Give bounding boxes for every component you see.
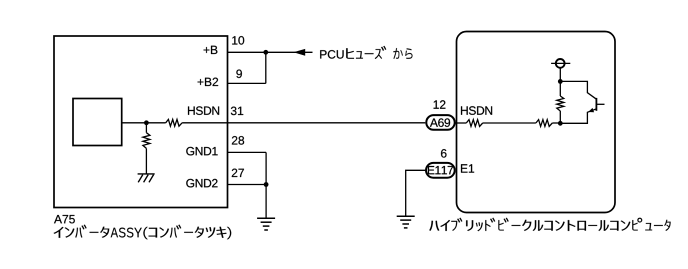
wire: +B2 riser to node J2 bbox=[265, 52, 267, 83]
connector A69 (oval) bbox=[426, 115, 454, 130]
transistor Q1 base bar bbox=[595, 98, 597, 111]
pin label GND1 bbox=[186, 147, 217, 156]
chassis ground (internal) bbox=[138, 174, 155, 182]
label: PCU fuse kara bbox=[320, 50, 343, 59]
resistor R2 (pull-down, internal) bbox=[143, 133, 150, 149]
pin label +B2 bbox=[198, 78, 219, 86]
wire: A69 into ECU bbox=[455, 122, 466, 124]
wire: down to ground G2 bbox=[265, 185, 267, 219]
wire: R3 to R4 bbox=[483, 122, 536, 124]
wire: node J4 to transistor Q1 collector bbox=[560, 81, 596, 99]
wire: R2 to chassis ground bbox=[145, 148, 147, 174]
pin number 12 bbox=[434, 100, 446, 108]
designator A75 bbox=[54, 215, 75, 223]
label: inverter ASSY (converter tsuki) bbox=[54, 225, 232, 240]
component box A75 inverter assembly bbox=[54, 36, 228, 208]
wire: pin 9 +B2 stub bbox=[228, 82, 266, 84]
internal unit block (square) bbox=[73, 99, 122, 146]
pin label GND2 bbox=[186, 179, 217, 188]
transistor Q1 base lead bbox=[596, 103, 604, 105]
wire: pin 10 +B to PCU fuse bbox=[228, 51, 313, 53]
wire: pin 31 HSDN to connector A69 bbox=[228, 122, 426, 124]
arrow to PCU fuse (points left) bbox=[293, 49, 305, 56]
label E1 bbox=[461, 164, 474, 172]
pin number 28 bbox=[232, 136, 244, 145]
power source symbol (circle) bbox=[556, 59, 565, 68]
resistor R3 (series input) bbox=[466, 120, 482, 127]
pin number 27 bbox=[232, 169, 244, 177]
pin number 10 bbox=[232, 36, 244, 45]
ground G3 bbox=[397, 216, 415, 228]
node J4 (junction dot) bbox=[558, 79, 563, 84]
pin number 6 bbox=[441, 149, 447, 158]
wire: R4 to node J5 bbox=[552, 122, 560, 124]
wire: pin 27 GND2 stub bbox=[228, 184, 267, 186]
connector E117 (oval) bbox=[426, 163, 455, 178]
wire: pin 28 GND1 stub bbox=[228, 151, 267, 153]
ground G2 bbox=[257, 218, 275, 230]
resistor R1 (series, internal) bbox=[166, 119, 182, 126]
wire: E117 to ground G3 bbox=[406, 170, 426, 216]
wire: R1 to pin 31 bbox=[182, 122, 227, 124]
node J3 (junction dot GND2) bbox=[264, 182, 269, 187]
pin number 9 bbox=[236, 70, 242, 79]
ECU box: hybrid vehicle control computer bbox=[457, 32, 616, 213]
resistor R5 (pull-up) bbox=[559, 81, 561, 96]
wire: block to node J1 bbox=[122, 122, 166, 124]
pin label +B bbox=[204, 46, 218, 54]
wire: node J1 down to resistor R2 bbox=[145, 123, 147, 133]
pin number 31 bbox=[231, 107, 243, 116]
transistor Q1 emitter to node J5 bbox=[560, 109, 596, 124]
wire: power to node J4 bbox=[559, 68, 561, 82]
node J2 (junction dot on +B line) bbox=[263, 50, 268, 55]
label: hybrid vehicle control computer bbox=[429, 218, 670, 232]
node J1 (junction dot) bbox=[144, 120, 149, 125]
wire: GND1 drop to GND2 line bbox=[265, 152, 267, 184]
pin label HSDN bbox=[188, 106, 219, 115]
resistor R4 (series) bbox=[536, 120, 552, 127]
transistor Q1 emitter arrow bbox=[588, 108, 594, 112]
node J5 (junction dot) bbox=[558, 121, 563, 126]
label HSDN (ECU side) bbox=[461, 106, 492, 115]
